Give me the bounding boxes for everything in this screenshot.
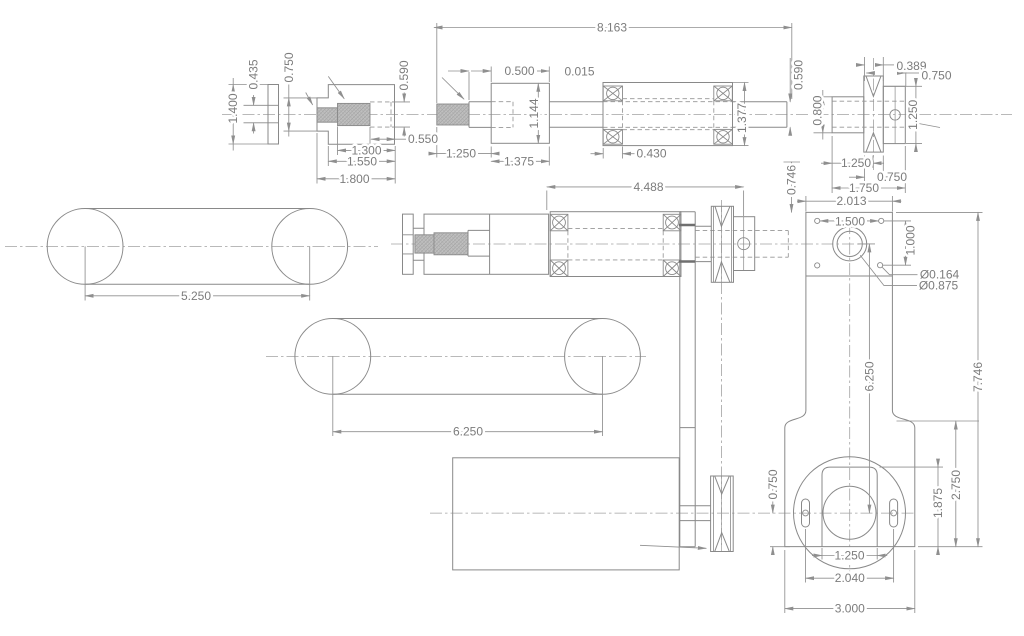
assembled: bearing housing bbox=[550, 212, 681, 277]
dim 1.144 bbox=[537, 83, 539, 143]
shaft stub to pulley bbox=[695, 226, 711, 261]
motor shaft bbox=[679, 506, 710, 521]
svg-text:1.250: 1.250 bbox=[906, 99, 920, 129]
dim 1.375 bbox=[548, 147, 550, 166]
svg-text:8.163: 8.163 bbox=[597, 21, 627, 35]
svg-text:4.488: 4.488 bbox=[633, 180, 663, 194]
dim 1.250 top view bbox=[437, 127, 491, 158]
dim 1.550 bbox=[327, 146, 329, 166]
pulley detail: right hub bbox=[883, 86, 905, 143]
dim 0.750 pulley bottom bbox=[865, 156, 884, 183]
housing bore hidden lines bbox=[623, 99, 714, 130]
bolt hole mid-left bbox=[815, 263, 820, 268]
dim 0.435 bbox=[253, 95, 255, 105]
bracket bearing bore (two circles) bbox=[833, 227, 867, 261]
bolt hole mid-right bbox=[878, 263, 883, 268]
collar (end washer, exploded) bbox=[268, 85, 279, 145]
dim 0.590 left bbox=[392, 102, 410, 127]
roller R2 left circle bbox=[295, 319, 371, 395]
assembled: threaded stud large (hatched) bbox=[434, 233, 468, 255]
hidden tapped hole in P1 bbox=[370, 102, 391, 127]
dim 2.040 bbox=[806, 529, 894, 583]
dim 5.250 bbox=[85, 246, 310, 300]
bolt hole top-right bbox=[879, 218, 884, 223]
assembled bearing TL bbox=[550, 214, 568, 231]
dim 1.377 bbox=[733, 83, 749, 146]
dim 0.750 bbox=[284, 98, 318, 131]
centerline assembled view bbox=[391, 243, 867, 245]
assembled housing bore hidden bbox=[568, 229, 663, 260]
svg-text:7.746: 7.746 bbox=[971, 362, 985, 392]
assembled: block A and block B bbox=[424, 214, 549, 274]
mount slot left bbox=[802, 499, 810, 527]
dim 0.500 bbox=[469, 67, 549, 101]
svg-text:6.250: 6.250 bbox=[453, 425, 483, 439]
motor outline circle bbox=[794, 457, 906, 569]
motor pulley disc bbox=[711, 476, 734, 552]
dim 0.750 motor bbox=[770, 546, 790, 548]
pulley detail: disc rim bbox=[864, 76, 884, 152]
dim 4.488 bbox=[547, 191, 744, 217]
dim 2.750 bbox=[897, 420, 980, 422]
roller R1 tangent lines bbox=[85, 209, 310, 285]
pulley detail: set screw hole bbox=[890, 110, 900, 120]
svg-text:1.875: 1.875 bbox=[931, 488, 945, 518]
motor body bbox=[453, 458, 680, 570]
svg-text:1.375: 1.375 bbox=[504, 154, 534, 168]
pulley detail: V-groove bottom bbox=[866, 133, 881, 152]
svg-text:0.746: 0.746 bbox=[785, 165, 799, 195]
assembled pulley disc bbox=[711, 206, 733, 282]
assembled: collar bore bbox=[403, 235, 414, 254]
centerline top shaft assembly bbox=[222, 114, 1012, 116]
motor boss circle bbox=[823, 486, 876, 539]
svg-text:0.430: 0.430 bbox=[636, 147, 666, 161]
assembled: boss between collar and block bbox=[413, 228, 424, 260]
dim 1.875 bbox=[880, 466, 944, 468]
shaft right of housing with end cap bbox=[733, 102, 787, 128]
svg-text:6.250: 6.250 bbox=[862, 361, 876, 391]
pulley detail: left hub bbox=[832, 97, 864, 133]
bearing housing (exploded) bbox=[603, 83, 733, 146]
dim 0.750 top-right pulley hub bbox=[905, 66, 907, 86]
pulley detail: set screw axis bbox=[894, 86, 896, 143]
svg-text:1.550: 1.550 bbox=[347, 154, 377, 168]
bearing BL bbox=[603, 129, 622, 144]
svg-text:0.750: 0.750 bbox=[921, 69, 951, 83]
dim 1.500 bbox=[820, 220, 879, 222]
roller R2 right circle bbox=[565, 319, 641, 395]
dim 0.015 bbox=[537, 70, 549, 72]
svg-text:1.750: 1.750 bbox=[849, 181, 879, 195]
dim 8.163 bbox=[437, 23, 792, 103]
svg-text:1.500: 1.500 bbox=[835, 214, 865, 228]
bearing TL bbox=[603, 86, 622, 101]
dim 1.250 pulley right bbox=[884, 86, 922, 143]
threaded shaft P2 (hatched) bbox=[437, 104, 469, 125]
dim 1.800 bbox=[316, 133, 318, 184]
svg-text:0.015: 0.015 bbox=[564, 64, 594, 78]
leader to P2 thread bbox=[442, 78, 464, 100]
dim 1.400 bbox=[229, 85, 269, 145]
leader to large stud bbox=[328, 76, 344, 98]
centerline roller R2 bbox=[266, 355, 646, 357]
leader to small stud bbox=[306, 93, 313, 105]
roller R1 right circle bbox=[272, 209, 348, 285]
svg-text:3.000: 3.000 bbox=[835, 602, 865, 616]
shaft between block B and housing bbox=[549, 102, 603, 128]
leader hole 0.164 bbox=[882, 267, 917, 274]
P2 shaft step bbox=[469, 102, 491, 128]
svg-text:2.013: 2.013 bbox=[836, 194, 866, 208]
assembled pulley V-grooves bbox=[715, 206, 730, 282]
pulley detail: V-groove top bbox=[866, 76, 881, 96]
dim 0.746 bbox=[784, 161, 801, 163]
svg-text:1.250: 1.250 bbox=[446, 147, 476, 161]
motor pulley V-grooves bbox=[715, 476, 729, 551]
dim 1.250 pulley bottom bbox=[832, 136, 873, 193]
svg-text:0.590: 0.590 bbox=[792, 60, 806, 90]
svg-text:1.377: 1.377 bbox=[735, 103, 749, 133]
dim 1.000 bbox=[883, 221, 911, 265]
leader motor pulley bbox=[640, 545, 706, 548]
assembled bearing BR bbox=[663, 260, 681, 277]
motor mount bracket outline bbox=[785, 212, 915, 546]
svg-text:0.550: 0.550 bbox=[408, 132, 438, 146]
pulley centerline solid portions bbox=[721, 206, 723, 551]
threaded stud small section (hatched) bbox=[317, 108, 338, 122]
hidden tapped hole in block B bbox=[491, 102, 513, 128]
dim 2.013 bbox=[806, 196, 893, 212]
dim 0.430 bbox=[603, 147, 622, 159]
bracket U-slot bbox=[822, 467, 877, 546]
centerline motor shaft bbox=[430, 512, 916, 514]
svg-text:Ø0.875: Ø0.875 bbox=[919, 279, 959, 293]
centerline belt vertical bbox=[721, 200, 723, 545]
leader from 1.250 bbox=[916, 123, 940, 128]
leader bore 0.875 bbox=[860, 255, 917, 285]
bolt hole top-left bbox=[815, 218, 820, 223]
plate shaft pass-through marks bbox=[679, 225, 695, 262]
svg-text:5.250: 5.250 bbox=[181, 289, 211, 303]
svg-text:1.250: 1.250 bbox=[834, 549, 864, 563]
svg-text:1.400: 1.400 bbox=[226, 93, 240, 123]
svg-text:0.435: 0.435 bbox=[247, 59, 261, 89]
assembled: threaded stud small (hatched) bbox=[415, 235, 434, 253]
svg-text:0.590: 0.590 bbox=[397, 60, 411, 90]
svg-text:0.500: 0.500 bbox=[504, 64, 534, 78]
bearing block B bbox=[491, 83, 549, 143]
svg-text:2.750: 2.750 bbox=[949, 470, 963, 500]
dim 1.750 bbox=[904, 146, 906, 193]
svg-text:1.144: 1.144 bbox=[527, 98, 541, 128]
assembled: stud shaft in bore bbox=[468, 230, 490, 256]
assembled bearing TR bbox=[663, 214, 681, 231]
assembled pulley set screw bbox=[738, 238, 750, 250]
centerline roller R1 bbox=[5, 245, 378, 247]
svg-text:0.750: 0.750 bbox=[877, 170, 907, 184]
shaft hidden through housing bbox=[603, 102, 733, 128]
pulley detail: bore hidden lines bbox=[832, 101, 905, 127]
roller R1 left circle bbox=[47, 209, 123, 285]
shaft end cap piece P1 outline bbox=[317, 85, 395, 145]
threaded stud large section (hatched) bbox=[338, 103, 371, 125]
bearing TR bbox=[714, 86, 733, 101]
assembled: collar bbox=[403, 214, 414, 274]
dim 0.800 pulley bbox=[814, 97, 833, 133]
assembled pulley hub bbox=[734, 217, 755, 271]
dim 0.590 right (shaft end) bbox=[789, 58, 791, 102]
svg-text:1.250: 1.250 bbox=[841, 156, 871, 170]
collar bore lines bbox=[244, 105, 279, 123]
centerline bracket vertical bbox=[849, 222, 851, 577]
roller R2 tangent lines bbox=[333, 319, 603, 395]
hidden shaft through pulley to bracket bbox=[695, 231, 788, 258]
svg-text:1.000: 1.000 bbox=[904, 225, 918, 255]
dim 1.250 plate slot bbox=[822, 548, 877, 560]
dim 6.250 roller R2 bbox=[333, 356, 603, 436]
bracket top plate edge bbox=[806, 275, 893, 277]
dim 0.389 bbox=[865, 57, 884, 81]
assembled bearing BL bbox=[550, 260, 568, 277]
dim 1.300 bbox=[338, 127, 396, 184]
svg-text:2.040: 2.040 bbox=[835, 571, 865, 585]
svg-text:0.750: 0.750 bbox=[766, 469, 780, 499]
mount slot right bbox=[890, 499, 898, 527]
mounting plate side view bbox=[680, 212, 695, 547]
dim 7.746 bbox=[896, 212, 983, 546]
bearing BR bbox=[714, 129, 733, 144]
dim 3.000 bbox=[785, 550, 915, 613]
svg-text:0.750: 0.750 bbox=[282, 52, 296, 82]
dim 6.250 bracket bbox=[858, 243, 875, 245]
svg-text:0.800: 0.800 bbox=[811, 95, 825, 125]
svg-text:1.800: 1.800 bbox=[339, 172, 369, 186]
dim 0.550 bbox=[369, 127, 371, 144]
centerline pulley detail vertical bbox=[872, 58, 874, 170]
